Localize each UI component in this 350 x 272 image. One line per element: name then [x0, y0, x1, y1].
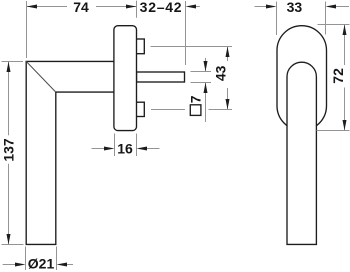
dimension 33: extension line left — [276, 2, 278, 36]
dimension 137: label (rotated) — [1, 138, 17, 162]
dimension 74: extension line left (x=26.5) — [26, 1, 28, 58]
dimension 7: extension line spindle bottom — [191, 82, 212, 84]
dimension 137: arrowhead up — [7, 62, 11, 73]
dimension 7: dimension line above and below — [205, 58, 207, 122]
dimension D21: outside arrow left — [3, 263, 26, 267]
dimension 74: dimension line with text gap — [27, 6, 137, 8]
dimension 137: extension line top — [2, 61, 24, 63]
svg-text:74: 74 — [73, 0, 89, 15]
svg-text:Ø21: Ø21 — [28, 256, 55, 272]
dimension 137: arrowhead down — [7, 234, 11, 245]
dimension 43: arrowhead down — [226, 99, 230, 110]
dimension 33: outside arrow right — [326, 5, 350, 9]
dimension 32-42: outside arrow right — [186, 5, 200, 9]
dimension 137: extension line bottom — [2, 244, 24, 246]
dimension D21: outside arrow right — [57, 263, 74, 267]
svg-text:33: 33 — [287, 0, 303, 15]
svg-text:137: 137 — [1, 138, 17, 162]
dimension D21: label — [28, 256, 55, 272]
dimension 7: arrowhead down — [204, 61, 208, 72]
dimension 7: arrowhead up — [204, 83, 208, 94]
dimension 72: extension line top — [318, 24, 350, 26]
dimension 43: dimension line with text gap — [227, 47, 229, 110]
screw boss top (side view) — [136, 39, 144, 54]
dimension D21: extension line left — [25, 247, 27, 271]
dimension 32-42: label — [140, 0, 183, 15]
dimension 72: dimension line with text gap — [344, 25, 346, 131]
dimension 72: arrowhead down — [343, 120, 347, 131]
screw boss bottom (side view) — [136, 102, 144, 116]
dimension 72: arrowhead up — [343, 25, 347, 36]
dimension 74/32-42: extension line shared (x=136.5) — [136, 1, 138, 18]
dimension 43: leader from bottom boss (gap at square symbol) — [151, 109, 232, 111]
handle side view: grip and arm outline — [26, 61, 117, 244]
svg-text:7: 7 — [188, 95, 204, 103]
dimension 33: extension line right — [325, 2, 327, 35]
rosette (side view) — [114, 26, 137, 131]
dimension 74: arrowhead right — [126, 5, 137, 9]
dimension 43: label (rotated) — [212, 65, 228, 81]
spindle (side view) — [137, 72, 185, 82]
dimension 72: label (rotated) — [330, 68, 346, 84]
dimension 16: label — [117, 141, 133, 157]
dimension 33: label — [287, 0, 303, 15]
dimension 7: square symbol — [190, 105, 201, 116]
svg-text:16: 16 — [117, 141, 133, 157]
dimension 74: arrowhead left — [27, 5, 38, 9]
dimension 74: label — [73, 0, 89, 15]
dimension 33: outside arrow left — [255, 5, 277, 9]
handle grip (front view) — [287, 62, 316, 244]
dimension 16: outside arrow right — [137, 147, 160, 151]
dimension 7: extension line spindle top — [191, 71, 212, 73]
dimension 7: label (rotated) — [188, 95, 204, 103]
dimension 16: outside arrow left — [92, 147, 115, 151]
dimension 72: extension line bottom — [317, 130, 350, 132]
dimension 43: leader from top boss — [151, 46, 233, 48]
svg-text:32–42: 32–42 — [140, 0, 183, 15]
dimension 43: arrowhead up — [226, 47, 230, 58]
dimension 16: extension line left — [114, 134, 116, 157]
rosette (front view) stadium — [277, 26, 327, 131]
handle side view: miter bend line — [26, 61, 56, 92]
dimension D21: extension line right — [56, 247, 58, 271]
dimension 32-42: extension line right at spindle end (x=185.5) — [185, 1, 187, 65]
dimension 16: extension line right — [136, 134, 138, 157]
svg-text:72: 72 — [330, 68, 346, 84]
svg-text:43: 43 — [212, 65, 228, 81]
dimension 137: dimension line with text gap — [8, 62, 10, 245]
